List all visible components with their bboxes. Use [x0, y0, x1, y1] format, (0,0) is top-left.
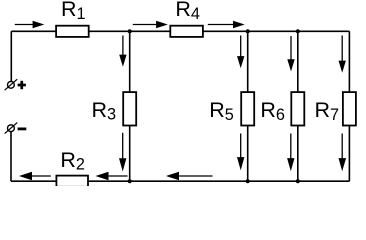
resistor R1 — [56, 26, 89, 37]
svg-text:R5: R5 — [209, 98, 234, 124]
resistor R2 — [56, 176, 88, 187]
current arrow right after R4 — [208, 21, 245, 28]
wire branch R7 vertical (right rail) — [348, 31, 350, 181]
current arrow left mid bottom — [166, 172, 213, 180]
wire branch R3 vertical — [129, 31, 131, 181]
resistor R6 — [291, 92, 304, 125]
terminal minus port — [5, 123, 18, 134]
terminal plus port — [5, 79, 18, 90]
resistor R5 — [241, 92, 254, 125]
junction node R3 bottom — [128, 179, 132, 183]
junction node after R1 top — [128, 29, 132, 33]
svg-text:R3: R3 — [92, 98, 117, 124]
resistor R4 — [170, 26, 203, 37]
junction node R5 bottom — [246, 179, 250, 183]
current arrow left bottom-left of R2 — [19, 172, 51, 180]
svg-text:R4: R4 — [175, 0, 200, 23]
current arrow left after R2 — [96, 172, 128, 180]
label minus — [18, 127, 27, 130]
current arrow down R7 bottom — [339, 134, 347, 172]
label + — [18, 81, 26, 89]
junction node R5 top — [246, 29, 250, 33]
current arrow right before R4 — [133, 21, 168, 28]
wire bottom rail — [11, 180, 349, 182]
junction node R6 bottom — [296, 179, 300, 183]
wire branch R6 vertical — [297, 31, 299, 181]
resistor R3 — [123, 92, 136, 125]
current arrow down R3 bottom — [119, 133, 126, 172]
svg-text:R1: R1 — [61, 0, 86, 23]
svg-text:R6: R6 — [260, 98, 285, 124]
current arrow down R5 top — [237, 36, 244, 69]
resistor R7 — [343, 92, 356, 125]
current arrow right before R1 — [15, 21, 45, 28]
current arrow down R7 top — [339, 36, 346, 73]
current arrow down R6 top — [287, 36, 294, 72]
current arrow down R5 bottom — [237, 134, 244, 171]
current arrow down R3 top — [119, 36, 126, 67]
wire top rail — [11, 30, 349, 32]
svg-text:R7: R7 — [315, 98, 340, 124]
wire left rail upper — [10, 31, 12, 81]
junction node R6 top — [296, 29, 300, 33]
svg-text:R2: R2 — [60, 148, 85, 174]
wire branch R5 vertical — [247, 31, 249, 181]
current arrow down R6 bottom — [287, 134, 294, 172]
wire left rail lower — [10, 132, 12, 181]
